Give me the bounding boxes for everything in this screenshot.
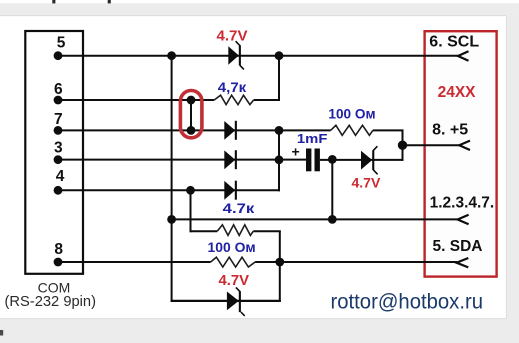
cropped text mark top 2 (108, 0, 111, 3)
capacitor C1 plate left (306, 149, 311, 172)
wire vertical bus V1 x=171.6 (171, 56, 173, 302)
junction dot pin7 x279 (275, 126, 284, 135)
junction dot SDA x279.8 (275, 258, 284, 267)
bottom gray margin strip (0, 319, 519, 343)
junction dot jumper bottom (187, 126, 196, 135)
svg-text:4,7к: 4,7к (218, 79, 247, 95)
svg-text:rottor@hotbox.ru: rottor@hotbox.ru (331, 290, 484, 314)
zener diode VD1 4.7V top (228, 41, 244, 69)
svg-text:8: 8 (54, 241, 63, 258)
wire 4.7k bottom row left (191, 230, 218, 232)
diode VD2 pin7 row (224, 121, 237, 140)
junction dot pin4 branch (186, 186, 195, 195)
wire pin7 row right of R2 (373, 129, 404, 131)
junction dot pin3 (54, 155, 63, 164)
junction dot pin3 x279 (275, 155, 284, 164)
small mark bottom-left (0, 330, 3, 336)
wire bottom zener row y=300.9 (171, 300, 281, 302)
resistor R4 100 Om zigzag (211, 257, 256, 267)
top gray margin strip (0, 3, 519, 15)
svg-text:100 Ом: 100 Ом (328, 107, 375, 122)
svg-text:100 Ом: 100 Ом (208, 239, 256, 255)
wire pin3 row left of C1 (58, 159, 306, 161)
wire pin4 row (58, 189, 280, 191)
capacitor C1 plate right (315, 149, 320, 172)
svg-text:4.7V: 4.7V (219, 273, 250, 289)
right gray margin column (506, 16, 519, 343)
junction dot SCL x279 (275, 51, 284, 60)
junction dot pin4 (54, 186, 63, 195)
svg-text:4.7к: 4.7к (223, 200, 256, 216)
wire jumper pin6-pin7 (190, 100, 192, 130)
connector J1 COM RS-232 box (25, 31, 83, 274)
arrow input SDA (457, 258, 469, 267)
svg-text:8. +5: 8. +5 (432, 122, 468, 139)
svg-text:4: 4 (56, 168, 65, 185)
svg-text:(RS-232 9pin): (RS-232 9pin) (5, 294, 97, 310)
svg-text:3: 3 (54, 140, 63, 157)
svg-text:24XX: 24XX (438, 84, 477, 101)
wire pin6 row right of R1 (254, 99, 280, 101)
wire +5 output row y=145.2 (403, 144, 461, 146)
wire pin6 row left of R1 (58, 99, 214, 101)
wire vertical C1 to 1.2.3.4.7 x=332.3 (331, 160, 333, 220)
wire vertical pin7-pin3-pin4 x=279 (278, 130, 280, 191)
wire pin8 SDA row left of R4 (58, 261, 211, 263)
resistor R3 4.7k zigzag (217, 225, 253, 236)
svg-text:5. SDA: 5. SDA (433, 238, 483, 255)
diode VD4 pin4 row (224, 181, 237, 200)
svg-text:7: 7 (54, 111, 63, 128)
wire net SCL pin5 row y=55.7 (58, 55, 461, 57)
svg-text:6. SCL: 6. SCL (429, 33, 479, 50)
svg-text:1mF: 1mF (297, 131, 328, 146)
resistor R2 100 Om zigzag (331, 125, 373, 135)
cropped text mark top 1 (52, 0, 55, 3)
junction dot pin7 (54, 126, 63, 135)
wire net 1.2.3.4.7 row y=219.4 (172, 218, 459, 220)
wire pin3 row right of C1 through zener (320, 159, 404, 161)
zener diode VD6 4.7V bottom (227, 287, 245, 316)
wire vertical R3 to bottom zener x=279.8 (279, 231, 281, 302)
zener diode VD5 4.7V middle (361, 146, 378, 174)
junction dot C1 output (328, 155, 337, 164)
junction dot +5 node (398, 141, 407, 150)
wire pin7 row left of R2 (58, 129, 331, 131)
diode VD3 pin3 row (224, 150, 237, 169)
highlight oval marker (red) around jumper (180, 91, 202, 138)
junction dot jumper top (187, 96, 196, 105)
svg-text:4.7V: 4.7V (217, 28, 248, 44)
wire pin4 branch down to R3 (190, 190, 192, 232)
wire 4.7k bottom row right (253, 230, 281, 232)
svg-text:+: + (292, 144, 300, 160)
junction dot pin5 (54, 51, 63, 60)
junction dot node V1 top (167, 51, 176, 60)
junction dot pin6 (54, 96, 63, 105)
svg-text:4.7V: 4.7V (352, 174, 381, 190)
junction dot pin8 (54, 258, 63, 267)
svg-text:1.2.3.4.7.: 1.2.3.4.7. (430, 194, 495, 211)
wire vertical R2/zener to +5 x=402.5 (402, 130, 404, 161)
arrow input 1.2.3.4.7 (458, 215, 469, 224)
junction dot 1.2.3.4.7 x332 (328, 215, 337, 224)
resistor R1 4.7k zigzag (214, 95, 253, 104)
arrow input +5 (459, 141, 470, 150)
IC outline box 24XX (red) (425, 31, 497, 276)
wire pin8 SDA row right of R4 (255, 261, 457, 263)
arrow input SCL (458, 51, 469, 60)
svg-text:5: 5 (57, 34, 66, 51)
junction dot 1.2.3.4.7 left (167, 215, 176, 224)
wire vertical SCL to R1 x=279 (278, 56, 280, 101)
